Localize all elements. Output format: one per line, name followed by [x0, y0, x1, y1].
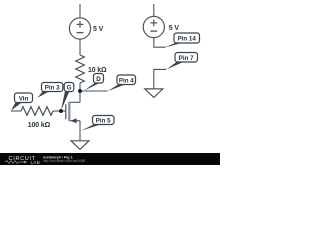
node flag D — [84, 74, 104, 91]
svg-text:D: D — [96, 76, 101, 83]
wire R2 to gate — [53, 110, 66, 112]
node flag Pin 5 — [81, 116, 114, 131]
svg-text:Pin 7: Pin 7 — [179, 55, 194, 62]
svg-text:5 V: 5 V — [93, 26, 104, 33]
wire drain node to Pin4 — [80, 90, 108, 92]
wire top of V1 — [79, 4, 81, 18]
svg-text:Pin 4: Pin 4 — [119, 77, 134, 84]
wire R1 to drain node — [79, 83, 81, 91]
node flag Vin — [11, 93, 33, 111]
svg-text:Pin 14: Pin 14 — [178, 36, 197, 43]
node flag Pin 3 — [38, 83, 63, 98]
junction node at drain — [78, 89, 82, 93]
wire V2 bottom to Pin14 node — [154, 38, 166, 48]
ground (right) — [145, 89, 163, 98]
resistor R1 10k (vertical zigzag) — [76, 55, 85, 83]
node flag Pin 14 — [164, 33, 200, 48]
svg-text:Pin 5: Pin 5 — [96, 118, 111, 125]
ground (left) — [71, 141, 89, 150]
voltage source V2 — [143, 16, 164, 37]
node flag Pin 4 — [108, 75, 136, 91]
wire drain node down to M1 drain — [79, 91, 81, 102]
junction node at gate — [59, 109, 63, 113]
wire Vin lead — [11, 110, 21, 112]
svg-text:10 kΩ: 10 kΩ — [88, 67, 107, 74]
voltage source V1 — [69, 18, 90, 39]
footer CircuitLab logo — [5, 156, 40, 165]
svg-text:http://circuitlab.com/c/ze2u38: http://circuitlab.com/c/ze2u38f — [43, 159, 85, 163]
node flag G — [61, 83, 74, 111]
svg-text:LAB: LAB — [31, 160, 41, 165]
footer bar — [0, 153, 220, 165]
svg-text:Pin 3: Pin 3 — [45, 85, 60, 92]
wire top of V2 — [153, 4, 155, 16]
svg-text:Vin: Vin — [19, 95, 29, 102]
svg-text:G: G — [67, 85, 72, 92]
transistor M1 (NMOS) — [66, 102, 80, 123]
resistor R2 100k (horizontal zigzag) — [21, 107, 53, 116]
wire Pin7 node to ground — [154, 69, 166, 89]
node flag Pin 7 — [166, 53, 198, 70]
svg-text:100 kΩ: 100 kΩ — [28, 122, 51, 129]
wire V1 to R1 — [79, 39, 81, 55]
wire M1 source down — [79, 121, 81, 141]
svg-text:5 V: 5 V — [169, 25, 180, 32]
